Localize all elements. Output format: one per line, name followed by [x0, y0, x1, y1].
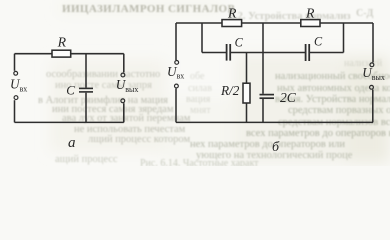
terminal circle output top (a) — [121, 73, 125, 77]
wire top rail segment 2 (b) — [242, 22, 301, 24]
wire top rail right segment (a) — [71, 53, 124, 55]
terminal circle output bottom (b) — [370, 85, 374, 89]
wire right output drop (b) — [372, 23, 374, 62]
wire R/2 branch top (b) — [246, 53, 248, 84]
svg-text:ащий процесс: ащий процесс — [55, 154, 118, 165]
svg-text:б: б — [272, 140, 280, 155]
wire bottom rail (a) — [15, 121, 124, 123]
decorative bleed-through text — [38, 3, 390, 169]
resistor R (a) body — [52, 50, 71, 57]
svg-text:нех параметров до операторов и: нех параметров до операторов или — [190, 139, 345, 150]
svg-text:лщий процесс котором: лщий процесс котором — [88, 134, 190, 145]
terminal circle output top (b) — [370, 63, 374, 67]
resistor R/2 (b) body — [243, 83, 250, 103]
terminal circle output bottom (a) — [121, 99, 125, 103]
wire top rail left segment (a) — [15, 53, 53, 55]
svg-text:Рис. 6.14. Частотные характ: Рис. 6.14. Частотные характ — [140, 158, 259, 166]
svg-text:C: C — [66, 83, 75, 97]
svg-text:обе: обе — [190, 71, 205, 82]
svg-text:всех параметров до операторов: всех параметров до операторов нап — [246, 128, 390, 139]
wire left bottom segment (a) — [14, 100, 16, 122]
capacitor C1 (b) left plate — [226, 44, 228, 61]
wire cap-rail left vertical (b) — [201, 23, 203, 53]
capacitor 2C (b) top plate — [260, 94, 275, 96]
wire right bottom segment (b) — [372, 90, 374, 123]
capacitor C (a) top plate — [79, 87, 93, 89]
capacitor C2 (b) right plate — [308, 44, 310, 61]
wire cap rail segment 2 (b) — [231, 52, 305, 54]
resistor R1 (b) body — [222, 20, 242, 27]
wire top rail segment 1 (b) — [176, 22, 222, 24]
wire cap rail segment 1 (b) — [202, 52, 226, 54]
capacitor C2 (b) left plate — [305, 44, 307, 61]
resistor R2 (b) body — [301, 20, 320, 27]
svg-text:R/2: R/2 — [220, 83, 240, 98]
terminal circle input top (b) — [175, 61, 179, 65]
svg-text:ИИЦАЗИЛАМРОН СИГНАЛОВ: ИИЦАЗИЛАМРОН СИГНАЛОВ — [62, 3, 235, 15]
wire top rail segment 3 (b) — [320, 22, 373, 24]
svg-text:R: R — [305, 5, 315, 20]
wire 2C branch bottom (b) — [262, 99, 264, 122]
wire right bottom segment (a) — [123, 103, 125, 122]
wire 2C branch top (b) — [262, 23, 264, 94]
svg-text:вация: вация — [186, 94, 211, 105]
svg-text:C: C — [314, 35, 323, 49]
wire R/2 branch bottom (b) — [246, 103, 248, 122]
wire left bottom segment (b) — [175, 88, 177, 122]
svg-text:R: R — [227, 6, 237, 21]
svg-text:силав: силав — [188, 83, 212, 94]
svg-text:осообразивании частотно: осообразивании частотно — [46, 69, 160, 80]
svg-text:R: R — [57, 34, 67, 49]
wire capacitor branch top (a) — [85, 54, 87, 88]
wire cap rail segment 3 (b) — [310, 52, 344, 54]
wire left input drop (a) — [14, 54, 16, 71]
wire bottom rail (b) — [176, 121, 373, 123]
svg-text:2C: 2C — [280, 90, 297, 105]
svg-text:а: а — [68, 135, 76, 151]
svg-text:C: C — [235, 36, 244, 50]
svg-text:средствам порвазных одным: средствам порвазных одным — [288, 105, 390, 116]
terminal circle input bottom (a) — [14, 96, 18, 100]
svg-text:мнят: мнят — [190, 105, 211, 116]
wire cap-rail right vertical (b) — [343, 23, 345, 53]
decorative paper mottling — [50, 1, 390, 163]
svg-text:Б.2. Устройства нормализ: Б.2. Устройства нормализ — [228, 11, 351, 22]
svg-text:С-Д: С-Д — [356, 8, 374, 19]
wire left input drop (b) — [175, 23, 177, 60]
wire right output drop (a) — [123, 54, 125, 73]
wire capacitor branch bottom (a) — [85, 93, 87, 123]
terminal circle input top (a) — [14, 71, 18, 75]
terminal circle input bottom (b) — [175, 84, 179, 88]
capacitor C (a) bottom plate — [79, 91, 93, 93]
capacitor C1 (b) right plate — [229, 44, 231, 61]
capacitor 2C (b) bottom plate — [260, 97, 275, 99]
